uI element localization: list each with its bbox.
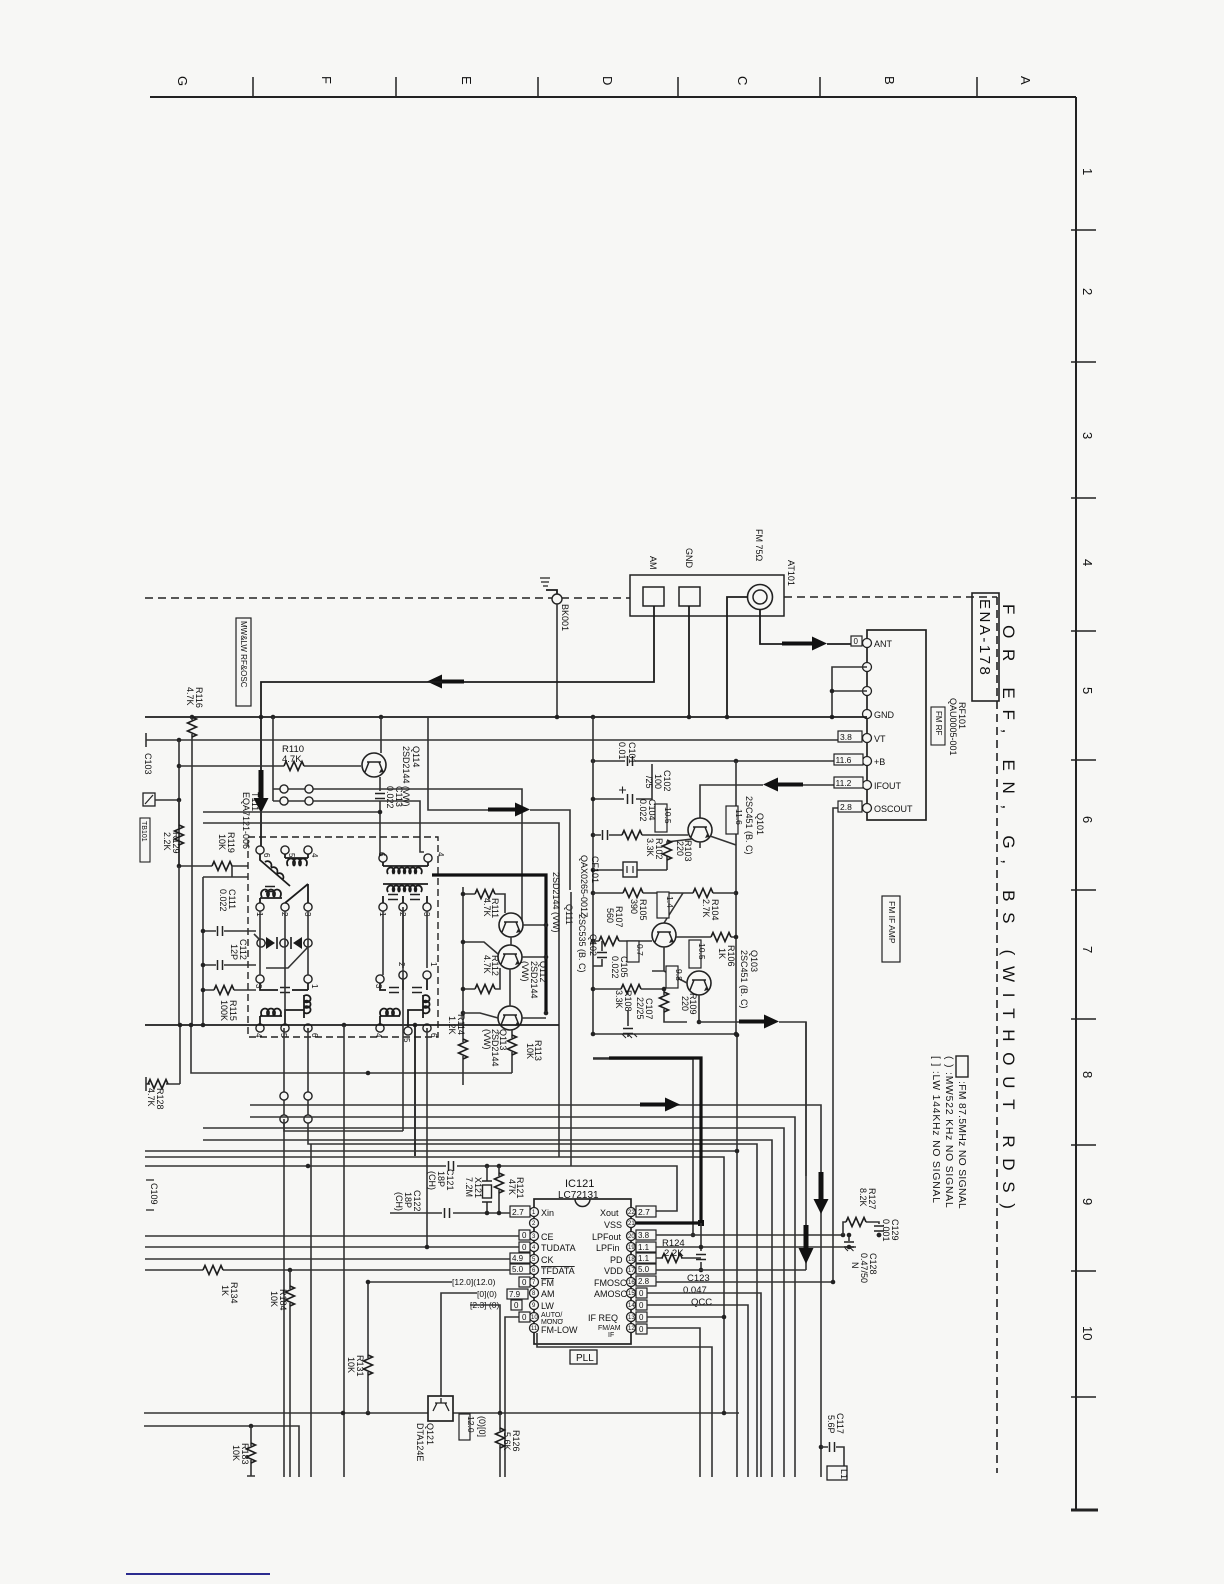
inductor L box bottom xyxy=(827,1466,849,1480)
svg-text:2SC451 (B. C): 2SC451 (B. C) xyxy=(744,796,754,855)
voltage box 0 at AMOSC xyxy=(636,1288,647,1298)
wire bus y1157 xyxy=(145,1157,724,1413)
svg-text:( ) :MW522 KHz NO SIGNAL: ( ) :MW522 KHz NO SIGNAL xyxy=(943,1056,954,1209)
svg-text:4: 4 xyxy=(310,853,319,858)
wire bold feed y875 xyxy=(432,875,546,1013)
svg-text:6: 6 xyxy=(429,1033,438,1038)
svg-text:11.6: 11.6 xyxy=(734,809,744,825)
voltage values LW pin xyxy=(470,1300,522,1310)
resistor R114 1.2K xyxy=(447,1014,468,1085)
svg-text:FM: FM xyxy=(541,1278,554,1288)
svg-text:(0)[0]: (0)[0] xyxy=(477,1416,487,1437)
wire GND bus xyxy=(145,716,867,718)
resistor R102 3.3K xyxy=(622,831,688,860)
svg-text:5.6P: 5.6P xyxy=(826,1415,836,1434)
ANTENNA CONNECTOR AT101 xyxy=(630,529,796,616)
voltage box 3.8 at LPFout xyxy=(636,1230,656,1240)
svg-text:C101: C101 xyxy=(627,742,637,764)
svg-text:LC72131: LC72131 xyxy=(558,1190,599,1201)
svg-text:4.9: 4.9 xyxy=(512,1254,524,1263)
wire x180 stub xyxy=(179,1025,181,1084)
wire x428 arrow feed xyxy=(428,717,488,810)
svg-text:1.4: 1.4 xyxy=(665,896,675,908)
svg-text:OSCOUT: OSCOUT xyxy=(874,804,913,814)
label PLL boxed xyxy=(570,1350,597,1364)
right pin circles xyxy=(627,1208,636,1217)
wire x311 xyxy=(310,1144,312,1477)
wire bus y1140 xyxy=(203,1140,772,1477)
svg-text:LPFout: LPFout xyxy=(592,1232,622,1242)
svg-text:10: 10 xyxy=(1080,1326,1095,1340)
svg-text:0: 0 xyxy=(522,1231,527,1240)
wire Q111 emitter chain xyxy=(505,913,511,1006)
voltage box 2.7 at Xout xyxy=(636,1206,656,1217)
grid ticks right xyxy=(1071,230,1096,1397)
svg-text:PD: PD xyxy=(610,1255,623,1265)
resistor R112 4.7K xyxy=(463,955,500,994)
wire x344 xyxy=(343,1025,345,1477)
border right line xyxy=(1075,97,1077,1510)
wire +B rail x736 xyxy=(735,761,737,1034)
wire CK line xyxy=(145,1258,510,1260)
svg-text:7.2M: 7.2M xyxy=(464,1177,474,1197)
voltage box 2.8 at FMOSC xyxy=(636,1276,656,1286)
svg-text:0.001: 0.001 xyxy=(881,1219,891,1242)
svg-text:3: 3 xyxy=(254,984,263,989)
resistor R104 2.7K xyxy=(683,889,736,921)
capacitor C117 xyxy=(819,1413,845,1466)
wire y1426 xyxy=(144,1426,299,1477)
arrow down x806 xyxy=(799,1225,814,1264)
voltage box 4.9 at CK xyxy=(510,1253,530,1263)
voltage box 0 at AUTO xyxy=(519,1312,530,1322)
resistor R131 10K xyxy=(346,1280,373,1413)
AM pad xyxy=(643,587,664,606)
voltage box 5.0 at TFDATA xyxy=(510,1264,530,1274)
border bottom-right tick xyxy=(1071,1509,1098,1512)
wire Q101 right to rail xyxy=(710,836,736,845)
svg-text:19: 19 xyxy=(628,1245,635,1251)
svg-text:AT101: AT101 xyxy=(786,560,796,586)
svg-text:3: 3 xyxy=(1080,432,1095,439)
capacitor C101 xyxy=(617,742,637,766)
DASHED COIL BOX T111 xyxy=(248,837,438,1037)
wire x284 low xyxy=(283,1119,285,1477)
resistor R115 100K xyxy=(201,986,256,1022)
svg-text:2.7K: 2.7K xyxy=(701,899,711,918)
svg-text:13: 13 xyxy=(628,1315,635,1321)
arrow down into T111 xyxy=(254,770,269,813)
svg-text:IC121: IC121 xyxy=(565,1178,594,1190)
resistor R113 10K xyxy=(508,1030,544,1073)
svg-text:18: 18 xyxy=(628,1257,635,1263)
capacitor C102 xyxy=(593,764,672,804)
svg-text:[0](0): [0](0) xyxy=(477,1289,497,1299)
svg-text:6: 6 xyxy=(377,852,386,857)
resistor R127 8.2K xyxy=(843,1188,884,1237)
capacitor C104 xyxy=(593,799,657,840)
svg-text:4.7K: 4.7K xyxy=(482,898,492,917)
grid numbers 1-10 xyxy=(1080,168,1095,1340)
svg-text:1: 1 xyxy=(1080,168,1095,175)
wire AM pad down then left xyxy=(464,606,654,682)
svg-text:2.8: 2.8 xyxy=(840,802,852,812)
svg-text:0: 0 xyxy=(514,1301,519,1310)
wire jack left tap xyxy=(727,597,748,717)
transistor Q112 xyxy=(498,945,522,969)
svg-text:N: N xyxy=(850,1262,860,1269)
voltage values AM pin xyxy=(477,1289,528,1299)
svg-text:47K: 47K xyxy=(507,1179,517,1195)
arrow right y810 xyxy=(488,803,530,817)
capacitor C107 electrolytic xyxy=(622,997,654,1038)
svg-text:VT: VT xyxy=(874,734,886,744)
svg-text:0: 0 xyxy=(522,1278,527,1287)
wire bus y1128 xyxy=(203,1128,784,1477)
svg-text:2SC535 (B. C): 2SC535 (B. C) xyxy=(577,914,587,973)
svg-text:220: 220 xyxy=(680,996,690,1011)
svg-text:GND: GND xyxy=(874,710,895,720)
svg-text:4: 4 xyxy=(374,1033,383,1038)
transistor Q114 xyxy=(362,746,421,807)
svg-text:5.0: 5.0 xyxy=(638,1265,650,1274)
svg-text:10.5: 10.5 xyxy=(663,807,673,824)
wire dashed right segment xyxy=(784,596,997,598)
svg-text:C: C xyxy=(735,76,750,85)
transformer T111 coil D xyxy=(374,962,438,1043)
wire bus y1151 xyxy=(145,1150,737,1152)
wire TUDATA line xyxy=(145,1246,519,1248)
wire FM jack to ANT xyxy=(760,609,782,644)
grid ticks top xyxy=(253,77,977,97)
wire x191 to y1073 xyxy=(191,1025,512,1073)
wire transformer column verticals xyxy=(260,911,427,1024)
svg-text:10K: 10K xyxy=(217,834,227,850)
svg-text:0.022: 0.022 xyxy=(218,889,228,912)
FM 75ohm jack xyxy=(748,585,773,610)
svg-text:15: 15 xyxy=(628,1291,635,1297)
svg-text:22/25: 22/25 xyxy=(635,997,645,1020)
svg-text:AM: AM xyxy=(541,1289,555,1299)
svg-text:0.7: 0.7 xyxy=(635,944,645,956)
transistor Q101 xyxy=(688,796,765,855)
resistor R103 220 xyxy=(663,839,694,870)
resistor R121 47K xyxy=(485,1166,525,1215)
svg-text:A: A xyxy=(1018,76,1033,85)
left pin circles xyxy=(530,1208,539,1217)
legend box symbol xyxy=(956,1056,968,1077)
wire LW pin left xyxy=(470,1305,500,1413)
svg-text:Q114: Q114 xyxy=(411,746,421,767)
pin 2 xyxy=(863,663,872,672)
wire from jumper row to y1131 xyxy=(284,1123,403,1131)
svg-text:C109: C109 xyxy=(149,1183,159,1205)
svg-text:0: 0 xyxy=(639,1325,644,1334)
svg-text:12: 12 xyxy=(628,1326,635,1332)
junction AM line crossing xyxy=(259,715,264,720)
svg-text:(VW): (VW) xyxy=(520,961,530,982)
wire TFDATA line xyxy=(145,1269,510,1271)
voltage box 0 at TUDATA xyxy=(519,1242,530,1252)
wire y823 xyxy=(203,823,559,1157)
svg-text:(CH): (CH) xyxy=(427,1171,437,1190)
wire dashed vertical xyxy=(996,597,998,1473)
svg-text:PLL: PLL xyxy=(576,1353,594,1364)
svg-text:11.2: 11.2 xyxy=(836,778,852,788)
svg-text:B: B xyxy=(882,76,897,85)
voltage box 0 at pin15 xyxy=(636,1300,647,1310)
svg-text:5: 5 xyxy=(1080,687,1095,694)
wire C122 line y1213 xyxy=(390,1212,509,1214)
wire IF REQ line xyxy=(647,1316,724,1318)
svg-text:G: G xyxy=(175,76,190,86)
svg-text:4: 4 xyxy=(436,852,445,857)
RF101 box xyxy=(867,630,926,820)
jumper link row 1 xyxy=(273,785,522,925)
capacitor C122 xyxy=(394,1190,450,1218)
arrow right y1105 xyxy=(640,1098,680,1112)
svg-text:9: 9 xyxy=(1080,1198,1095,1205)
svg-text:AUTO/: AUTO/ xyxy=(541,1312,562,1319)
resistor R119 10K xyxy=(177,832,248,871)
wire BK001 down xyxy=(556,604,558,717)
wire from jumper row to y1144 xyxy=(308,1123,757,1477)
svg-text:ENA-178: ENA-178 xyxy=(976,599,993,677)
arrow down x821 xyxy=(814,1172,829,1214)
svg-text:10K: 10K xyxy=(231,1445,241,1461)
jumper link row 2 xyxy=(273,797,424,852)
voltage box 0 at FMAM xyxy=(636,1324,647,1334)
pin 1 ANT xyxy=(863,639,872,648)
capacitor C112 xyxy=(201,939,256,970)
voltage values FM pin xyxy=(452,1277,530,1287)
wire VT line xyxy=(146,733,862,747)
voltage box 0 at CE xyxy=(519,1230,530,1240)
ENA-178 box xyxy=(972,593,999,701)
resistor R107 560 xyxy=(593,906,652,946)
op-amp U1 equivalent: IC121 body xyxy=(534,1199,631,1344)
svg-text:2.2K: 2.2K xyxy=(162,832,172,851)
capacitor C123 xyxy=(683,1223,712,1308)
wire LPFin line xyxy=(656,1246,856,1248)
wire left rail x593 xyxy=(592,717,594,1034)
wire pin2 pin3 link xyxy=(832,667,867,717)
svg-text:AMOSC: AMOSC xyxy=(594,1289,628,1299)
svg-text:(CH): (CH) xyxy=(394,1192,404,1211)
svg-text:IF REQ: IF REQ xyxy=(588,1313,618,1323)
svg-text:E: E xyxy=(459,76,474,85)
transformer T111 coil A xyxy=(255,846,319,917)
svg-text:FM/AM: FM/AM xyxy=(598,1325,621,1332)
wire Q114 collector xyxy=(380,717,382,753)
wire VSS bold xyxy=(609,1058,701,1223)
svg-text:AM: AM xyxy=(648,556,658,570)
voltage box 2.7 at Xin xyxy=(510,1206,530,1217)
svg-text:Xout: Xout xyxy=(600,1208,619,1218)
wire y1059 xyxy=(593,1059,693,1235)
svg-text:FM IF AMP: FM IF AMP xyxy=(887,901,897,944)
svg-text:10: 10 xyxy=(531,1315,538,1321)
svg-text:TB101: TB101 xyxy=(140,821,147,842)
label MW&LW RF&OSC boxed xyxy=(236,618,251,706)
svg-text:(VW): (VW) xyxy=(482,1029,492,1050)
svg-text:10K: 10K xyxy=(346,1357,356,1373)
wire Q113 base xyxy=(463,1013,498,1018)
svg-text:4: 4 xyxy=(1080,559,1095,566)
pin 4 GND xyxy=(863,710,872,719)
wire IFOUT line xyxy=(700,785,763,818)
voltage box 1.1 at LPFin xyxy=(636,1242,656,1252)
wire top link y877 xyxy=(203,866,248,877)
capacitor C113 xyxy=(375,777,404,858)
wire LPFout line xyxy=(656,1234,843,1236)
wire CE line xyxy=(145,1235,519,1237)
svg-text:0.01: 0.01 xyxy=(617,742,627,760)
svg-text:10K: 10K xyxy=(269,1291,279,1307)
svg-text:+B: +B xyxy=(874,757,885,767)
svg-text:4.7K: 4.7K xyxy=(282,754,302,765)
capacitor C128 electrolytic xyxy=(844,1233,881,1283)
svg-text:10K: 10K xyxy=(525,1043,535,1059)
svg-text:7: 7 xyxy=(1080,946,1095,953)
voltage box 1.1 at PD xyxy=(636,1253,656,1263)
svg-text:ANT: ANT xyxy=(874,639,893,649)
wire FMOSC line xyxy=(656,1281,833,1283)
wire dashed left segment xyxy=(145,597,630,599)
IC121 PLL xyxy=(530,1178,636,1344)
ceramic filter CF101 xyxy=(579,855,667,918)
svg-text:16: 16 xyxy=(628,1280,635,1286)
svg-text:FM RF: FM RF xyxy=(934,711,943,736)
transistor Q121 DTA124E xyxy=(415,1396,453,1461)
svg-text:0: 0 xyxy=(522,1313,527,1322)
wire FM-LOW down right xyxy=(537,1333,712,1477)
svg-text:4.7K: 4.7K xyxy=(482,955,492,974)
svg-text:6: 6 xyxy=(262,853,271,858)
resistor R128 4.7K xyxy=(146,1077,180,1110)
svg-text:220: 220 xyxy=(675,841,685,856)
svg-text:LW: LW xyxy=(541,1301,554,1311)
wire PD line xyxy=(656,1257,701,1259)
wire OSCOUT line xyxy=(833,808,862,1282)
svg-text:2: 2 xyxy=(1080,288,1095,295)
svg-text:TFDATA: TFDATA xyxy=(541,1266,575,1276)
FM RF UNIT RF101 xyxy=(863,630,968,820)
crystal X121 xyxy=(464,1166,492,1213)
svg-text:IF: IF xyxy=(608,1332,614,1339)
voltage box 0 at IF REQ xyxy=(636,1312,647,1322)
svg-text:3.3K: 3.3K xyxy=(614,990,624,1009)
svg-text:0.022: 0.022 xyxy=(610,956,620,979)
svg-text:0: 0 xyxy=(522,1243,527,1252)
capacitor C121 xyxy=(427,1161,455,1191)
transistor Q111 xyxy=(499,913,523,937)
wire Q103 collector down xyxy=(698,995,700,1022)
wire x427 xyxy=(426,1028,428,1247)
svg-text:0.022: 0.022 xyxy=(638,799,648,822)
ground BK001 xyxy=(540,578,570,631)
arrow IFOUT left xyxy=(763,778,803,792)
wire y812 xyxy=(203,811,380,813)
svg-text:L1: L1 xyxy=(839,1469,849,1479)
svg-text:MW&LW RF&OSC: MW&LW RF&OSC xyxy=(239,621,248,688)
svg-text:22: 22 xyxy=(628,1210,635,1216)
svg-text:IFOUT: IFOUT xyxy=(874,781,901,791)
wire x403 xyxy=(402,907,404,1131)
resistor R116 4.7K xyxy=(185,687,204,766)
wire bus y1025 xyxy=(145,1024,559,1026)
wire bus y1166 xyxy=(145,1166,677,1211)
wire FMAM IF line xyxy=(647,1328,700,1477)
pin 7 IFOUT xyxy=(863,781,872,790)
svg-text:9.8: 9.8 xyxy=(674,969,684,981)
svg-text:LPFin: LPFin xyxy=(596,1243,620,1253)
resistor R126 5.6K xyxy=(496,1413,522,1477)
svg-text:FMOSC: FMOSC xyxy=(594,1278,627,1288)
svg-text:C103: C103 xyxy=(143,753,153,775)
wire x179 lower xyxy=(178,866,180,1025)
wire +B line xyxy=(593,760,862,762)
svg-text:QCC: QCC xyxy=(691,1297,712,1308)
svg-text:11.6: 11.6 xyxy=(836,755,852,765)
wire vertical x571 xyxy=(570,892,572,1166)
svg-text:DTA124E: DTA124E xyxy=(415,1423,425,1461)
LEGEND xyxy=(930,1056,968,1209)
svg-text:Q121: Q121 xyxy=(425,1423,435,1445)
svg-text:1: 1 xyxy=(310,984,319,989)
svg-text:0.047: 0.047 xyxy=(683,1285,707,1296)
svg-text:1.1: 1.1 xyxy=(638,1243,650,1252)
resistor R129 2.2K xyxy=(162,800,184,866)
wire x415 xyxy=(414,1025,416,1156)
transformer T111 coil B xyxy=(377,852,445,917)
resistor R134 1K xyxy=(203,1266,239,1304)
wire x463 xyxy=(462,887,464,1042)
svg-text:Xin: Xin xyxy=(541,1208,554,1218)
svg-text:1K: 1K xyxy=(717,948,727,959)
arrow AM left xyxy=(427,675,464,689)
wire bus y1117 xyxy=(250,1117,795,1477)
wire left vertical x179 xyxy=(178,740,180,866)
svg-text:7.9: 7.9 xyxy=(509,1290,521,1299)
capacitor C129 xyxy=(881,1219,900,1242)
svg-text:2SD2144 (VW): 2SD2144 (VW) xyxy=(551,872,561,933)
resistor R184 10K xyxy=(269,1268,295,1477)
resistor R183 10K xyxy=(231,1426,256,1476)
svg-text:Q103: Q103 xyxy=(749,950,759,972)
svg-text:3.8: 3.8 xyxy=(840,732,852,742)
svg-text:6: 6 xyxy=(1080,816,1095,823)
svg-text:1.1: 1.1 xyxy=(638,1254,650,1263)
wire Q101 collector top xyxy=(699,842,701,848)
svg-text::FM 87.5MHz NO SIGNAL: :FM 87.5MHz NO SIGNAL xyxy=(956,1081,967,1209)
svg-text:QAU0005-001: QAU0005-001 xyxy=(948,698,958,756)
svg-text:3.3K: 3.3K xyxy=(645,838,655,857)
svg-text:2: 2 xyxy=(397,962,406,967)
svg-text:2.7: 2.7 xyxy=(512,1207,524,1217)
svg-text:D: D xyxy=(600,76,615,85)
svg-text:10.5: 10.5 xyxy=(697,943,707,960)
resistor R110 4.7K xyxy=(179,744,361,771)
border top line xyxy=(150,96,1076,98)
svg-text:12.0: 12.0 xyxy=(466,1416,476,1433)
capacitor C105 xyxy=(593,941,629,979)
svg-text:14: 14 xyxy=(628,1303,635,1309)
wire bottom rail xyxy=(593,1033,737,1035)
svg-text:2.7: 2.7 xyxy=(638,1207,650,1217)
wire jumpers below coils xyxy=(280,1028,312,1123)
svg-text:0: 0 xyxy=(854,637,859,646)
